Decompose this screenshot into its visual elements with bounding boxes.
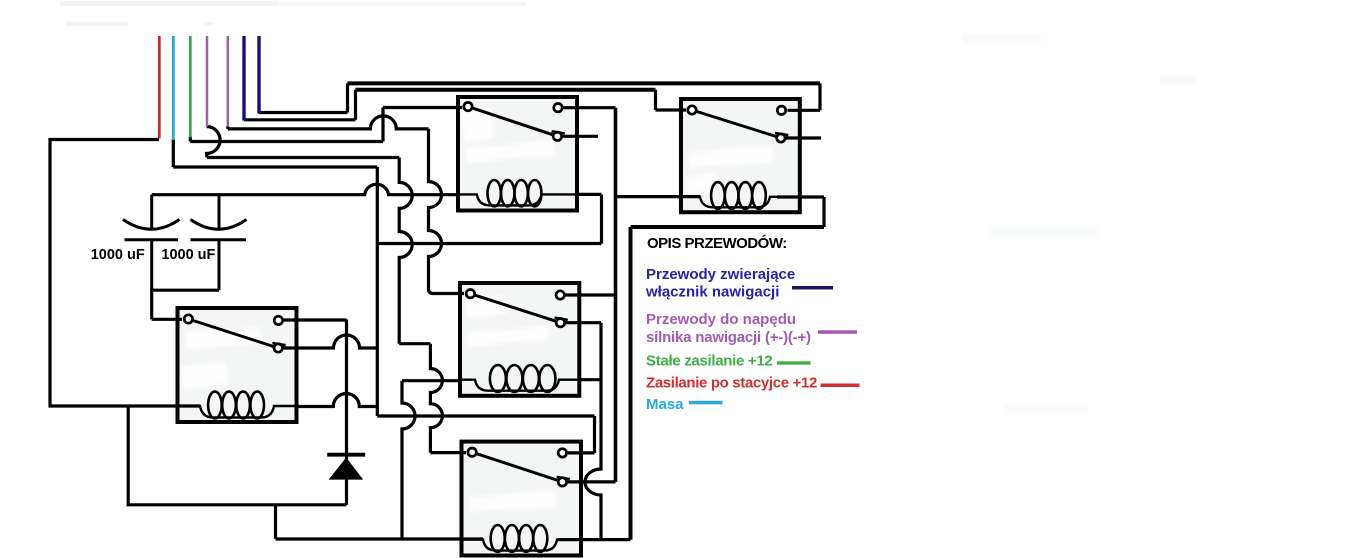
wire: bottom rail under diode	[127, 503, 347, 506]
relay K1 terminal TL	[184, 315, 192, 323]
wire: navy2 horizontal	[259, 111, 348, 114]
svg-text:Przewody do napędu: Przewody do napędu	[646, 311, 796, 328]
relay K5 terminal MR	[777, 134, 785, 142]
wire: purple1 to relay K4 TL	[430, 451, 466, 454]
wire: relay K2 coil return vertical	[600, 194, 603, 243]
wire: green horizontal	[190, 140, 383, 143]
wire: relay K5 coil-right lead	[777, 195, 824, 198]
svg-text:OPIS PRZEWODÓW:: OPIS PRZEWODÓW:	[647, 234, 787, 252]
wire: purple1 lower vertical with two hops	[430, 344, 442, 453]
wire: green to relay K2 TL	[383, 106, 462, 109]
wire: left rail to relay K1 coil-left	[49, 404, 201, 407]
wire: purple1 vertical with two hops	[399, 158, 412, 344]
legend purple dash	[818, 330, 857, 334]
wire: green riser	[381, 108, 384, 142]
wire: purple2 silnik nawigacji	[227, 36, 230, 127]
relay K1 arm tip nub	[272, 343, 285, 345]
wire: relay K4 TR riser	[593, 416, 596, 453]
relay K5 terminal TL	[688, 106, 696, 114]
svg-text:1000 uF: 1000 uF	[91, 247, 145, 263]
wire: relay K1 TL lead from capacitors	[152, 318, 182, 321]
wire: navy1 top line	[356, 88, 656, 92]
wire: relay K4 coil-right to legend corner riser	[558, 538, 631, 541]
wire: relay K3 MR vertical with hop over relay K4 MR stub	[585, 323, 601, 540]
wire: purple2 elbow	[226, 127, 229, 129]
wire: masa lower horizontal to relay K4 TR riser	[377, 414, 594, 417]
svg-text:włącznik nawigacji: włącznik nawigacji	[645, 284, 779, 301]
relay K4 arm tip nub	[557, 477, 570, 479]
wire: riser to relay K5 coil-right	[822, 197, 825, 227]
relay K1 switch arm	[188, 319, 278, 348]
relay K1 terminal TR	[274, 316, 282, 324]
svg-text:Stałe zasilanie +12: Stałe zasilanie +12	[646, 353, 772, 370]
relay K1 box fill (left)	[178, 308, 297, 422]
wire: red (zasilanie po stacyjce)	[158, 36, 161, 139]
wire: masa black continuation down	[172, 139, 175, 167]
svg-text:Przewody zwierające: Przewody zwierające	[646, 266, 795, 283]
relay K3 box fill (center middle)	[460, 283, 579, 396]
relay K2 box border	[458, 97, 577, 211]
relay K4 terminal TR	[558, 449, 566, 457]
relay K4 switch arm	[472, 452, 562, 482]
diode D1	[327, 455, 365, 480]
wire: capacitor bottom joint	[152, 289, 219, 292]
wire: relay K3 TR lead	[560, 293, 615, 296]
relay K4 terminal MR	[558, 478, 566, 486]
relay K5 terminal TR	[777, 106, 785, 114]
wire: diode vertical from relay K1 TR junction	[345, 320, 348, 505]
relay K3 switch arm	[470, 294, 560, 323]
wire: red feed horizontal to left rail	[50, 138, 159, 141]
relay interior white streaks	[181, 108, 773, 512]
wire: masa vertical long	[376, 167, 379, 416]
relay K1 coil	[178, 392, 297, 419]
wire: bus vertical x615	[614, 108, 618, 482]
wire: relay K3 coil-right lead	[579, 378, 601, 381]
legend red dash	[821, 384, 860, 388]
wire: navy2 drop to relay K5 TR	[818, 83, 821, 110]
relay K3 terminal TL	[466, 290, 474, 298]
wire: relay K3 MR stub	[560, 321, 601, 324]
faint smudge top-left	[60, 2, 278, 7]
svg-text:1000 uF: 1000 uF	[161, 247, 215, 263]
wire: legend corner vertical	[629, 227, 633, 540]
wire: purple2 horizontal with hop over green riser	[228, 116, 429, 129]
wire: green stale zasilanie	[189, 36, 192, 138]
relay K2 box fill (top middle)	[458, 97, 577, 211]
wire: navy1 wlacznik nawigacji	[242, 36, 245, 121]
wire: relay K2 TR lead	[558, 106, 616, 109]
relay K3 terminal TR	[556, 291, 564, 299]
svg-text:silnika nawigacji (+-)(-+): silnika nawigacji (+-)(-+)	[646, 329, 811, 346]
wire: masa (cyan)	[172, 36, 175, 140]
wire: green black elbow	[189, 137, 192, 142]
wire: bottom rail to relay K4 coil-left	[276, 537, 484, 540]
wire: purple1 horizontal	[207, 156, 399, 159]
wire: navy1 riser	[354, 90, 357, 120]
wire: relay K3 coil-left horizontal	[402, 379, 460, 382]
relay K2 terminal MR	[553, 132, 561, 140]
relay K3 arm tip nub	[555, 318, 568, 320]
wire: navy1 drop to relay K5 TL	[654, 90, 657, 110]
relay K3 coil	[460, 365, 579, 392]
wire: relay K5 TL lead	[656, 108, 687, 111]
relay K5 switch arm	[692, 110, 781, 138]
faint smudge top-right	[963, 34, 1041, 43]
legend green dash	[777, 361, 811, 364]
wire: purple2 vertical with two hops	[429, 129, 442, 294]
wire: relay K3 coil-left vertical with hop over masa line	[402, 381, 415, 539]
capacitor C1	[123, 195, 180, 291]
wire: relay K4 TR stub	[562, 451, 594, 454]
wire: relay K2 coil return horizontal to masa	[377, 242, 601, 245]
wire: purple1 hop arc over green horizontal	[207, 127, 220, 158]
relay K1 terminal MR	[274, 344, 282, 352]
wire: branch vertical x128 down	[127, 405, 130, 505]
wire: relay K5 TR lead	[788, 109, 821, 112]
legend navy dash	[792, 286, 833, 290]
wire: relay K2 MR stub	[557, 135, 598, 138]
relay K5 box fill (top right)	[681, 99, 800, 212]
relay K2 switch arm	[468, 107, 557, 137]
relay K2 arm tip nub	[552, 131, 565, 133]
wire: relay K1 coil-right with hop over diode wire	[297, 394, 378, 407]
relay K4 box border	[462, 442, 582, 556]
wire: left rail vertical	[48, 138, 51, 406]
relay K3 box border	[460, 283, 579, 396]
svg-text:Masa: Masa	[646, 396, 684, 413]
wire: relay K2 coil-right lead	[577, 193, 602, 196]
wire: relay K5 coil-left lead	[616, 195, 701, 198]
wire: bottom joint vertical x275	[274, 505, 277, 539]
relay K4 terminal TL	[468, 448, 476, 456]
svg-text:Zasilanie po stacyjce +12: Zasilanie po stacyjce +12	[646, 375, 817, 392]
wire: relay K4 MR stub	[562, 480, 615, 483]
relay K5 arm tip nub	[775, 133, 788, 135]
relay K5 box border	[681, 99, 800, 212]
wire: purple1 silnik nawigacji	[206, 36, 209, 127]
relay K2 terminal TR	[554, 104, 562, 112]
wire: relay K1 TR stub	[278, 318, 346, 321]
relay K5 coil	[681, 182, 800, 209]
wire: legend corner horizontal	[631, 225, 825, 229]
wire: relay K1 MR stub with hop over diode wire	[278, 335, 377, 348]
legend cyan dash	[689, 401, 723, 405]
wire: node line capacitors to relay K2 coil-left with hop over masa vertical	[152, 184, 458, 194]
relay K2 terminal TL	[464, 102, 472, 110]
relay K2 coil	[458, 180, 577, 206]
wire: navy1 horizontal	[244, 118, 356, 121]
wire: purple2 to relay K3 TL	[433, 292, 464, 295]
relay K4 coil	[462, 525, 582, 552]
capacitor C2	[191, 195, 247, 291]
wire: navy2 riser	[346, 83, 349, 112]
wire: navy2 wlacznik nawigacji	[257, 36, 260, 114]
wire: capacitor joint riser	[150, 289, 153, 320]
wire: masa horizontal	[173, 165, 377, 168]
wire: purple1 jog to x430	[399, 342, 430, 345]
wire: navy2 top line	[348, 81, 821, 85]
relay K4 box fill (bottom middle)	[462, 442, 582, 556]
relay K3 terminal MR	[556, 319, 564, 327]
relay K1 box border	[178, 308, 297, 422]
wire: relay K5 MR stub	[781, 136, 821, 139]
